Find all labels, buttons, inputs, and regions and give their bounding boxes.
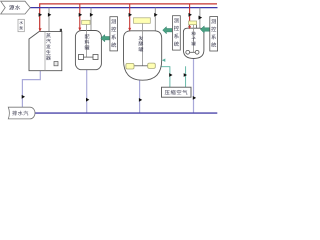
wire: water drop to fermenter (154, 8, 156, 31)
wire: steam drop to feed tank (79, 4, 81, 30)
wire: steam header (red) (40, 4, 217, 31)
wire: feed tank drain pipe (86, 70, 88, 113)
arrowhead: steam line into generator (39, 28, 42, 31)
wire: fermenter drain pipe (139, 80, 141, 113)
wire: steam drop to fermenter (129, 4, 131, 30)
valve: generator blowdown (22, 95, 25, 99)
valve: steam to fermenter (129, 13, 132, 17)
component: control system box 3 (210, 17, 218, 51)
wire: seed tank drain pipe (193, 58, 195, 114)
arrowhead: air into fermenter (162, 59, 165, 62)
valve: water to seed tank (199, 16, 203, 20)
arrowhead: steam into feed tank (78, 28, 81, 31)
arrow: control system 2 into fermenter (163, 27, 173, 34)
wire: generator blowdown pipe to drain (22, 71, 40, 107)
valve: seed tank drain (193, 96, 196, 100)
valve: fermenter drain (139, 98, 142, 102)
arrowhead: steam into fermenter (128, 28, 131, 31)
wire: compressed air line to seed tank (185, 66, 187, 87)
component: compressed air supply (162, 87, 192, 97)
valve: air to seed tank (184, 73, 187, 77)
wire: water drop to steam generator (48, 8, 50, 32)
wire: water drop to feed tank (90, 8, 92, 31)
wire: water drop to seed tank (199, 8, 201, 29)
node: waste water outlet banner (8, 107, 35, 119)
wire: drain header (34, 112, 217, 114)
valve: steam to seed tank (189, 13, 192, 17)
valve: steam to feed tank (79, 13, 82, 17)
node: raw water inlet banner (1, 1, 31, 14)
arrow: control system 3 into seed tank (200, 26, 209, 33)
valve: water to fermenter (154, 13, 157, 17)
component: small pump label box (18, 19, 24, 31)
arrowhead: steam into seed tank (188, 26, 191, 29)
valve: feed tank drain (86, 98, 89, 102)
component: steam generator U1 (29, 29, 62, 71)
component: feed tank T1 (75, 20, 101, 69)
arrow: control system 1 into feed tank (101, 35, 110, 42)
valve: water to feed tank (90, 13, 93, 17)
component: seed tank T3 (183, 21, 204, 59)
component: control system box 1 (110, 17, 118, 51)
wire: steam drop to seed tank (189, 4, 191, 27)
component: fermenter T2 (124, 18, 162, 80)
component: control system box 2 (173, 16, 181, 50)
wire: water header (blue) from inlet arrow (30, 7, 218, 9)
valve: steam to generator (39, 13, 42, 17)
wire: compressed air line to fermenter (161, 67, 170, 88)
valve: air to fermenter (169, 73, 172, 77)
valve: water to generator (48, 13, 51, 17)
